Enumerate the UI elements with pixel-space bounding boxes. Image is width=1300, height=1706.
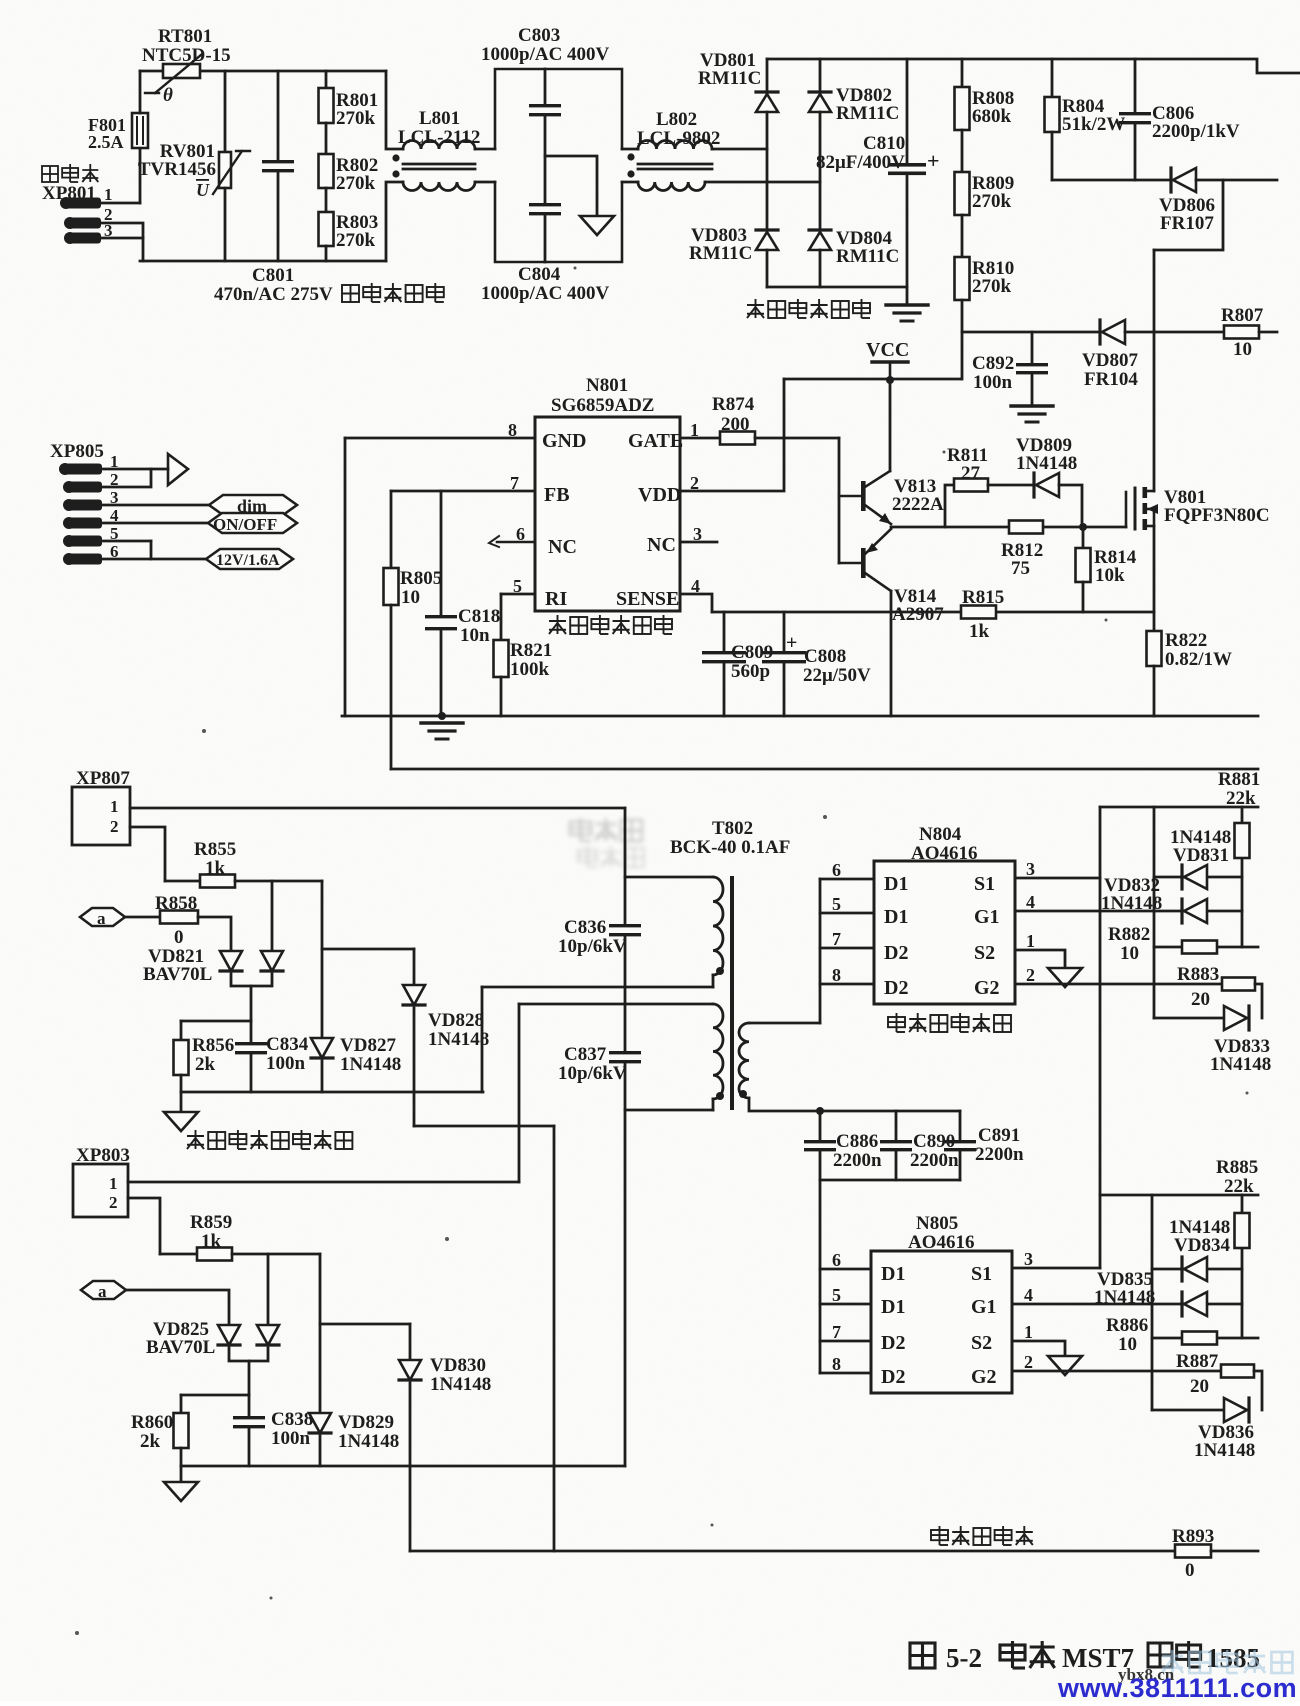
wire R893 out [1211, 1550, 1258, 1553]
wire R856 bottom [180, 1075, 183, 1092]
wire RI to R821 [500, 594, 503, 640]
wire ground stub XP807 [180, 1092, 183, 1112]
wire long vertical S1 bus [1099, 807, 1102, 1268]
node ON/OFF flag [208, 513, 297, 533]
wire secondary top lead [749, 1022, 820, 1025]
transformer T802 secondary winding [739, 1023, 749, 1098]
wire bottom rail [140, 260, 386, 263]
transistor V801 MOSFET [1126, 487, 1158, 530]
wire N804 S2 out [1015, 950, 1065, 968]
watermark smudge [570, 818, 644, 867]
diode VD832 [1182, 899, 1207, 923]
wire R801-R802 [325, 123, 328, 154]
wire N804 pin5 [820, 912, 874, 915]
resistor R807 [1224, 326, 1259, 339]
wire XP801 pin3 to bottom rail [102, 238, 143, 261]
wire R859 out [232, 1253, 320, 1256]
wire L802 bottom out [705, 181, 820, 184]
wire VD803 bottom [766, 250, 769, 287]
label 抗干扰电器 [342, 283, 444, 302]
wire R814 bottom [1082, 582, 1085, 612]
wire R874 to bases [755, 437, 839, 440]
wire left rail lower [139, 148, 142, 203]
connector XP801 pin 1 [60, 197, 101, 209]
wire VD806 branch down [1154, 180, 1223, 250]
wire N804 G1 out [1015, 910, 1242, 913]
wire L801 bottom out [475, 181, 495, 184]
wire C808 top [783, 612, 786, 651]
wire C886 bottom [819, 1151, 822, 1180]
wire to 12V flag [151, 558, 206, 561]
wire C818 bottom [440, 631, 443, 716]
dot T802 winding2 [716, 1092, 724, 1100]
connector XP805 pin 5 [63, 535, 102, 547]
diode VD828 [403, 985, 425, 1005]
wire pin5 RI [501, 593, 535, 596]
wire L802 bottom lead [622, 181, 638, 184]
wire to VD828 [322, 948, 414, 951]
capacitor C803 [529, 104, 561, 116]
caption tu [910, 1643, 935, 1668]
wire FB to R805 [390, 491, 393, 568]
transformer T802 core [730, 878, 734, 1108]
diode VD836 [1224, 1398, 1249, 1422]
capacitor C891 [944, 1140, 976, 1151]
junction secondary bottom [816, 1107, 824, 1115]
capacitor C890 [880, 1140, 912, 1151]
label 电压电流检测电路 [187, 1130, 352, 1149]
wire VCC charge line [962, 331, 1100, 334]
wire L802 core line 2 [638, 168, 712, 171]
wire varistor bottom [224, 188, 227, 261]
wire R810 bottom to VCC rail [961, 300, 964, 379]
ground C810 [886, 305, 928, 321]
wire C837 down long [624, 1063, 627, 1466]
wire R860 top [180, 1395, 183, 1413]
wire drain rail vertical [1153, 250, 1156, 491]
wire to R859 [160, 1253, 197, 1256]
wire VCC rail [784, 378, 961, 381]
wire R821 bottom [500, 677, 503, 716]
wire VD827 vertical [321, 881, 324, 1038]
wire R858 to VD821 [198, 917, 231, 951]
wire R808 top [961, 59, 964, 87]
diode VD825 right [257, 1325, 279, 1345]
wire pin2 VDD to VCC [680, 379, 784, 491]
wire C892 bottom [1031, 374, 1034, 404]
wire C801 top [277, 71, 280, 160]
diode VD809 [1034, 473, 1059, 497]
wire C892 top [1031, 332, 1034, 363]
watermark blur chars row1 [570, 818, 642, 841]
wire N805 pin8 [820, 1372, 871, 1375]
wire base bus [838, 438, 841, 563]
wire N805 pin5 [820, 1303, 871, 1306]
resistor R805 [384, 568, 399, 605]
wire VD825 cathode join [229, 1348, 268, 1361]
junction VCC rail [886, 376, 894, 384]
caption jixin [1148, 1641, 1201, 1667]
wire VD801 top [766, 59, 769, 92]
wire C809 bottom [723, 663, 726, 716]
inductor L801 top winding [403, 141, 475, 150]
wire VD829 bottom [319, 1436, 322, 1466]
wire C810 top [906, 59, 909, 164]
wire VD833 line [1154, 1017, 1224, 1020]
capacitor C806 [1119, 112, 1151, 124]
wire VD836 line [1152, 1409, 1224, 1412]
wire XP805 pin3 [102, 504, 209, 507]
connector XP807 box [72, 787, 130, 845]
capacitor C886 [804, 1140, 836, 1151]
wire C806 top [1134, 59, 1137, 112]
wire C891 bottom [959, 1151, 962, 1180]
diode VD831 [1182, 865, 1207, 889]
wire VD801-VD803 [766, 112, 769, 230]
label 逆变器部分 [931, 1526, 1033, 1545]
wire L801 core line 2 [403, 168, 475, 171]
node a flag top [80, 908, 125, 926]
ground XP803 section [164, 1482, 198, 1501]
arrow output symbol [168, 454, 188, 485]
wire C801 bottom [277, 172, 280, 261]
junction gate node [1079, 523, 1087, 531]
wire R811 to VD809 [988, 484, 1034, 487]
wire VD821 cathode join [231, 974, 272, 986]
dot L802 bottom polarity [627, 170, 634, 177]
wire R885 right vertical [1241, 1195, 1244, 1338]
resistor R887 [1221, 1365, 1254, 1378]
wire R881 top line [1100, 806, 1258, 809]
wire GND left vertical [344, 438, 347, 716]
transistor V813 [839, 471, 891, 524]
wire N804 G2 out [1015, 983, 1222, 986]
caption haixin [1000, 1641, 1055, 1668]
resistor R804 [1045, 97, 1060, 132]
capacitor C836 [609, 924, 641, 936]
wire L802 top out [712, 148, 767, 151]
connector XP803 box [73, 1164, 128, 1217]
capacitor C801 [262, 160, 294, 172]
wire pin8 GND [345, 437, 535, 440]
dot T802 winding1 [716, 967, 724, 975]
wire to arrow [151, 468, 168, 471]
wire N804 drain bus [819, 879, 822, 1023]
diode VD834 [1182, 1257, 1207, 1281]
diode VD821 right [261, 951, 283, 971]
resistor R886 [1182, 1332, 1217, 1345]
capacitor C809 [702, 651, 746, 663]
wire VD828 to inverter [414, 1125, 554, 1128]
wire inverter bottom line [410, 1550, 1175, 1553]
wire R881 right vertical [1241, 807, 1244, 947]
ground XP807 section [164, 1112, 198, 1131]
wire R802-R803 [325, 188, 328, 212]
wire emitter rail [891, 526, 1126, 529]
wire XP803 pin2 down [128, 1198, 160, 1254]
capacitor C804 [529, 203, 561, 215]
capacitor C837 [609, 1051, 641, 1063]
wire R856 top link [181, 1020, 251, 1023]
resistor R855 [200, 875, 235, 888]
wire V801 source [1153, 526, 1156, 631]
wire C890 top [895, 1111, 898, 1140]
wire C838 top [248, 1395, 251, 1416]
wire C886 top [819, 1111, 822, 1140]
wire V814 collector down [890, 591, 893, 716]
wire XP807 line down to C836 [624, 808, 627, 924]
wire C836 to C837 [624, 936, 627, 1051]
ground N805 S2 [1048, 1356, 1082, 1375]
ground N804 S2 [1048, 968, 1082, 987]
wire R882 line [1154, 946, 1258, 949]
diode VD803 [756, 230, 778, 250]
wire C804 bottom [544, 214, 547, 262]
resistor R808 [955, 87, 970, 130]
resistor R814 [1076, 548, 1091, 582]
wire N805 S2 out [1012, 1341, 1065, 1356]
dot L801 top polarity [392, 154, 399, 161]
wire XP807 pin2 down [130, 827, 165, 881]
wire primary top lead [625, 876, 713, 879]
diode VD829 [309, 1413, 331, 1433]
wire N804 pin7 [820, 947, 874, 950]
wire primary lower bottom line [625, 1109, 713, 1112]
wire VD830 top [409, 1324, 412, 1360]
resistor R803 [319, 212, 334, 246]
wire primary lower stub [712, 1099, 715, 1110]
wire R805 to feedback line [390, 605, 393, 769]
diode VD821 left [220, 951, 242, 971]
wire R860 bottom [180, 1448, 183, 1466]
diode VD833 [1224, 1006, 1249, 1030]
wire N805 G2 out [1012, 1370, 1221, 1373]
dot L802 top polarity [627, 153, 634, 160]
wire XP801 pin1 to fuse rail [102, 202, 140, 205]
wire VD834 line [1152, 1268, 1242, 1271]
diode VD807 [1100, 320, 1125, 344]
wire long vertical to bottom [553, 1126, 556, 1551]
inductor L802 bottom winding [638, 182, 705, 191]
op-amp U N805 box [871, 1251, 1012, 1393]
wire VD828 top [413, 949, 416, 985]
wire R811 riser [945, 485, 954, 527]
wire C803-C804 [544, 116, 547, 203]
diode VD825 left [218, 1325, 240, 1345]
wire ground stub XP803 [180, 1466, 183, 1482]
wire pin6 NC with arrow [489, 536, 535, 547]
wire C838 bottom [248, 1429, 251, 1466]
wire C890 bottom [895, 1151, 898, 1180]
resistor R810 [955, 257, 970, 300]
wire VD829 vertical [319, 1254, 322, 1413]
label 驱动控制电路 [549, 615, 672, 634]
wire GATE out [680, 437, 720, 440]
wire XP803 ground rail [181, 1465, 625, 1468]
dot L801 bottom polarity [392, 170, 399, 177]
wire VD828 bottom [413, 1008, 416, 1126]
dot T802 secondary [739, 1090, 747, 1098]
wire N805 drain bus [819, 1180, 822, 1373]
dust specks [75, 267, 1249, 1636]
wire L801 bottom lead [386, 182, 403, 261]
watermark cyan chars [1162, 1650, 1292, 1673]
wire top DC rail [767, 59, 1300, 73]
connector XP801 pin 3 [64, 232, 101, 244]
connector XP805 pin 4 [63, 517, 102, 529]
diode VD806 [1171, 168, 1196, 192]
wire R885 mid vertical [1151, 1195, 1154, 1410]
connector XP805 pin 6 [63, 553, 102, 565]
diode VD830 [399, 1360, 421, 1380]
wire R809-R810 [961, 215, 964, 257]
watermark blur chars row2 [578, 846, 644, 867]
wire R887 to VD836 [1254, 1371, 1262, 1410]
wire to AC ground [545, 156, 597, 215]
resistor R822 [1147, 631, 1162, 666]
capacitor C834 [235, 1042, 267, 1054]
resistor R874 [720, 432, 755, 445]
wire N805 pin7 [820, 1340, 871, 1343]
wire R881 mid vertical [1153, 807, 1156, 1018]
resistor R893 [1175, 1545, 1211, 1558]
wire L802 core line 1 [638, 163, 712, 166]
diode VD802 [809, 92, 831, 112]
resistor R812 [1009, 521, 1043, 534]
transistor V814 [839, 529, 891, 591]
wire C803 top [544, 69, 547, 104]
transformer T802 primary bottom winding [713, 1004, 723, 1099]
wire C891 top [959, 1111, 962, 1140]
wire L802 top lead [622, 148, 638, 151]
wire N804 S1 out [1015, 877, 1100, 880]
wire C818 top [440, 491, 443, 615]
wire pin3 NC [680, 541, 717, 544]
wire VD821 down [250, 986, 253, 1021]
wire VD827 bottom [321, 1061, 324, 1092]
capacitor C810 electrolytic [888, 163, 926, 175]
power VCC [872, 362, 908, 380]
connector XP805 pin 3 [63, 499, 102, 511]
wire ground rail [342, 715, 1258, 718]
thermistor RT801 [145, 55, 201, 93]
wire sense rail [712, 611, 1154, 614]
wire C810 bottom to ground [906, 175, 909, 303]
resistor R809 [955, 172, 970, 215]
resistor R858 [160, 911, 198, 924]
resistor R801 [319, 88, 334, 123]
wire N805 G1 out [1012, 1303, 1242, 1306]
wire secondary bottom lead [749, 1098, 960, 1111]
wire XP805 pin6 join [102, 541, 151, 559]
op-amp U N801 box [535, 417, 680, 611]
resistor R882 [1182, 941, 1217, 954]
wire R855 to VD821 right [271, 881, 274, 951]
inductor L802 top winding [638, 141, 712, 150]
wire to VD830 [320, 1323, 410, 1326]
wire VD804 bottom [819, 250, 822, 287]
ground control IC [421, 723, 463, 739]
connector XP805 pin 2 [63, 481, 102, 493]
ground C892 [1011, 406, 1053, 422]
ground AC filter [580, 216, 614, 235]
diode VD804 [809, 230, 831, 250]
wire XP805 pin1 [102, 468, 151, 471]
wire R804 top [1051, 59, 1054, 97]
node a flag bottom [81, 1281, 126, 1299]
resistor R811 [954, 479, 988, 492]
capacitor C808 electrolytic [762, 651, 806, 663]
wire C808 bottom [783, 663, 786, 716]
resistor R881 [1235, 823, 1250, 858]
wire R804 bottom [1051, 132, 1054, 180]
wire R856 top [180, 1021, 183, 1040]
wire primary lower top line [519, 1003, 713, 1006]
fuse F801 [132, 113, 148, 148]
wire sense rail riser [481, 987, 484, 1092]
wire R885 top line [1100, 1194, 1258, 1197]
wire L801 top out [475, 148, 495, 151]
junction ground symbol tap [438, 712, 446, 720]
wire N805 pin6 [820, 1268, 871, 1271]
op-amp U N804 box [874, 861, 1015, 1004]
wire cap bottom bus [820, 1179, 960, 1182]
label 桥式驱动电路 [888, 1013, 1011, 1032]
wire XP801 pin2 [102, 223, 143, 238]
resistor R859 [197, 1248, 232, 1261]
resistor R860 [174, 1413, 189, 1448]
wire XP805 pin2 join [102, 469, 151, 487]
wire R803 bottom [325, 246, 328, 261]
wire R808-R809 [961, 130, 964, 172]
resistor R802 [319, 154, 334, 188]
capacitor C818 [425, 615, 457, 630]
wire sense ground rail [181, 1091, 483, 1094]
wire a to VD825 [126, 1290, 229, 1325]
wire R859 to VD825 right [267, 1254, 270, 1325]
diode VD827 [311, 1038, 333, 1058]
wire top rail [140, 70, 386, 73]
label 连接器 [42, 164, 98, 182]
wire L801 core line 1 [403, 163, 475, 166]
wire R801 top [325, 71, 328, 88]
watermark site name [1162, 1650, 1292, 1673]
wire N804 pin6 [820, 878, 874, 881]
node dim flag [209, 495, 297, 515]
wire VD809 out [1059, 485, 1082, 527]
wire VD806 out [1196, 179, 1277, 182]
capacitor C838 [233, 1416, 265, 1428]
wire R814 top [1082, 527, 1085, 548]
wire VD807 to R807 [1125, 331, 1224, 334]
scan noise overlay [0, 0, 1, 1]
wire winding top to XP803 [518, 1004, 521, 1182]
connector XP805 pin 1 [59, 463, 102, 475]
wire to R855 [165, 880, 200, 883]
wire R883 to VD833 [1255, 984, 1262, 1018]
wire VD830 down long [409, 1383, 412, 1551]
wire C834 top [250, 1021, 253, 1042]
wire L801 top lead [386, 71, 403, 149]
wire XP807 pin1 long [130, 807, 625, 810]
wire R855 out [235, 880, 322, 883]
diode VD801 [756, 92, 778, 112]
wire C803 box outline [495, 69, 622, 262]
label 市电整流滤波 [747, 299, 870, 318]
resistor R883 [1222, 978, 1255, 991]
resistor R856 [174, 1040, 189, 1075]
wire primary winding bottom line [482, 986, 713, 989]
